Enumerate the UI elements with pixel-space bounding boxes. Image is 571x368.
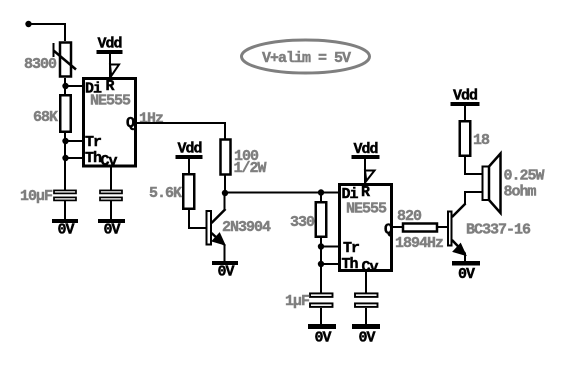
svg-text:0V: 0V bbox=[218, 264, 235, 281]
wire to Tr pin of U1 bbox=[65, 140, 83, 142]
power Vdd symbol for R6 bbox=[451, 88, 480, 107]
transistor Q2 2N3904 bbox=[207, 194, 226, 262]
svg-text:0V: 0V bbox=[104, 222, 121, 239]
capacitor C2 bbox=[100, 190, 122, 200]
ground 0V under C3 bbox=[308, 324, 336, 347]
junction dot node Tr1 bbox=[62, 138, 68, 144]
wire to Th pin of U1 bbox=[65, 157, 83, 159]
svg-text:V+alim = 5V: V+alim = 5V bbox=[262, 50, 351, 67]
svg-text:R: R bbox=[361, 184, 370, 201]
wire Vdd to R3 bbox=[188, 158, 190, 173]
svg-text:1µF: 1µF bbox=[285, 293, 310, 310]
note ellipse V+alim = 5V bbox=[242, 40, 370, 73]
svg-text:0V: 0V bbox=[359, 330, 376, 347]
wire R6 to speaker top terminal bbox=[465, 157, 483, 174]
svg-text:NE555: NE555 bbox=[346, 201, 387, 218]
svg-text:330: 330 bbox=[290, 214, 315, 231]
resistor R5 820 bbox=[403, 224, 437, 232]
junction dot collector node bbox=[222, 190, 228, 196]
svg-text:0V: 0V bbox=[58, 222, 75, 239]
wire Vdd to R pin of U1 bbox=[109, 54, 111, 77]
wire to Th pin of U2 bbox=[321, 263, 339, 265]
power Vdd symbol for U1 reset bbox=[97, 36, 123, 55]
svg-text:Q: Q bbox=[126, 115, 135, 132]
wire thermistor to 68K resistor bbox=[64, 78, 66, 94]
ground 0V under C2 bbox=[98, 219, 125, 239]
svg-text:Th: Th bbox=[342, 256, 359, 273]
R pin inversion triangle U2 bbox=[365, 171, 375, 182]
svg-text:1Hz: 1Hz bbox=[139, 111, 163, 128]
wire R4 down to capacitor C3 bbox=[320, 238, 322, 293]
ground 0V under Q2 bbox=[212, 261, 238, 281]
wire to Di pin of U1 bbox=[65, 85, 83, 87]
svg-text:5.6K: 5.6K bbox=[149, 185, 182, 202]
svg-text:1894Hz: 1894Hz bbox=[395, 235, 443, 252]
ground 0V under C1 bbox=[52, 219, 78, 239]
R pin inversion triangle U1 bbox=[110, 65, 119, 77]
capacitor C4 bbox=[355, 293, 378, 307]
capacitor C1 10uF bbox=[54, 190, 76, 200]
ground 0V under C4 bbox=[352, 324, 380, 347]
wire Q2 output to resistor R5 bbox=[392, 226, 402, 228]
wire Vdd to R6 bbox=[464, 106, 466, 120]
junction dot node Di2 bbox=[318, 189, 324, 195]
svg-text:Tr: Tr bbox=[85, 134, 101, 151]
junction dot node Th1 bbox=[62, 155, 68, 161]
power Vdd symbol for U2 reset bbox=[352, 141, 380, 159]
wire junction to Di pin of U2 bbox=[225, 192, 339, 194]
svg-text:820: 820 bbox=[397, 208, 422, 225]
junction dot node Th2 bbox=[318, 261, 324, 267]
svg-text:Q: Q bbox=[384, 222, 393, 239]
op-amp U1 NE555 box bbox=[84, 79, 136, 167]
wire Cv1 to capacitor C2 bbox=[110, 167, 112, 190]
svg-text:BC337-16: BC337-16 bbox=[466, 222, 531, 239]
svg-text:Cv: Cv bbox=[362, 259, 379, 276]
wire C2 to ground bbox=[110, 201, 112, 219]
svg-text:NE555: NE555 bbox=[90, 93, 131, 110]
wire 68K to capacitor C1 bbox=[64, 133, 66, 190]
resistor R3 5.6K bbox=[183, 174, 194, 209]
resistor R4 330 bbox=[316, 202, 327, 237]
resistor R6 18 bbox=[460, 121, 471, 156]
svg-text:Th: Th bbox=[85, 150, 102, 167]
wire collector node to 330 resistor bbox=[320, 193, 322, 202]
node A input terminal dot bbox=[25, 21, 31, 27]
svg-text:0.25W: 0.25W bbox=[504, 168, 545, 185]
wire speaker bottom terminal to Q3 collector bbox=[465, 192, 483, 203]
svg-text:0V: 0V bbox=[315, 330, 332, 347]
wire R2 to collector junction bbox=[224, 175, 226, 194]
wire Cv2 to capacitor C4 bbox=[365, 272, 367, 293]
svg-text:Cv: Cv bbox=[101, 153, 118, 170]
wire R5 to base of Q3 bbox=[438, 226, 448, 228]
svg-text:Vdd: Vdd bbox=[453, 88, 477, 105]
power Vdd symbol for R3 bbox=[176, 141, 203, 160]
op-amp U2 NE555 box bbox=[340, 185, 392, 271]
wire R3 to base of Q2 bbox=[189, 210, 206, 228]
svg-text:2N3904: 2N3904 bbox=[222, 219, 271, 236]
junction dot node Tr2 bbox=[318, 243, 324, 249]
svg-text:Vdd: Vdd bbox=[98, 36, 122, 53]
svg-text:1/2W: 1/2W bbox=[234, 160, 267, 177]
wire input to thermistor RT1 bbox=[29, 24, 66, 41]
resistor R2 100 bbox=[221, 140, 231, 175]
svg-text:8ohm: 8ohm bbox=[504, 184, 537, 201]
svg-text:18: 18 bbox=[473, 132, 490, 149]
svg-text:8300: 8300 bbox=[24, 56, 57, 73]
junction dot node Di1 bbox=[62, 83, 68, 89]
ground 0V under Q3 bbox=[452, 261, 480, 283]
svg-text:0V: 0V bbox=[458, 266, 475, 283]
thermistor RT1 body bbox=[54, 43, 77, 77]
resistor R1 68K bbox=[60, 95, 71, 132]
transistor Q3 BC337-16 bbox=[448, 192, 466, 262]
wire C3 to ground bbox=[320, 308, 322, 325]
wire C1 to ground bbox=[64, 201, 66, 219]
svg-text:68K: 68K bbox=[33, 109, 58, 126]
svg-text:Tr: Tr bbox=[343, 240, 359, 257]
wire Q1 output to resistor R2 bbox=[137, 123, 225, 139]
svg-text:Vdd: Vdd bbox=[178, 141, 202, 158]
wire to Tr pin of U2 bbox=[321, 246, 339, 248]
svg-text:10µF: 10µF bbox=[20, 188, 53, 205]
speaker LS1 bbox=[483, 154, 501, 214]
wire C4 to ground bbox=[365, 308, 367, 325]
wire Vdd to R pin of U2 bbox=[364, 158, 366, 183]
capacitor C3 1uF bbox=[310, 293, 333, 307]
